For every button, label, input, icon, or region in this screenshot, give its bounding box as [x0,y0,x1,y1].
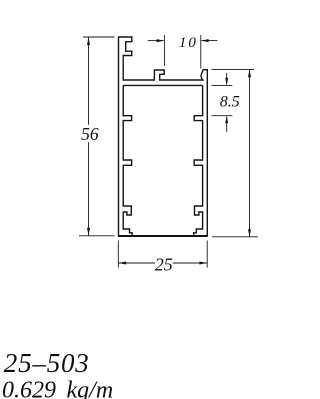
svg-text:kg/m: kg/m [67,377,114,399]
arrow 25 left [118,262,126,265]
dim 10 leader right [202,40,218,42]
dim 56 extension line top [83,36,115,38]
dim 10 extension line left [163,35,165,66]
dim 25 extension line right [206,241,208,268]
arrow tall up [248,70,251,78]
arrow 25 right [199,262,207,265]
svg-text:25–503: 25–503 [4,348,90,378]
dim 10 leader left [148,40,164,42]
svg-text:0.629: 0.629 [2,377,56,399]
arrow 10 left [201,39,209,42]
dim 25 line [118,262,207,264]
bottom edge thick [119,235,208,237]
svg-text:8.5: 8.5 [220,94,240,111]
arrow 56 down [87,228,90,236]
profile outer boundary [119,37,208,236]
arrow 10 right [157,39,165,42]
beak top extension line [212,69,255,71]
svg-text:25: 25 [155,254,173,274]
arrow 56 up [87,37,90,45]
svg-text:10: 10 [179,35,198,51]
dim 10 extension line right [200,35,202,69]
right wall inner face with teeth [194,85,203,236]
dim 8.5 leader lower [226,117,228,132]
right tall dim line [249,70,251,237]
svg-text:56: 56 [81,124,99,144]
arrow 8.5 down [225,78,228,86]
dim 56 extension line bottom [79,235,115,237]
right tall dim bottom extension [212,236,258,238]
top wall inner surface [123,84,202,86]
left wall inner face with teeth [123,85,132,236]
dim 8.5 leader upper [226,73,228,85]
dim 8.5 extension line lower [212,115,233,117]
dim 8.5 extension line upper [212,84,233,86]
arrow 8.5 up [225,116,228,124]
dim 25 extension line left [117,241,119,268]
arrow tall down [248,229,251,237]
dim 56 line [88,37,90,236]
